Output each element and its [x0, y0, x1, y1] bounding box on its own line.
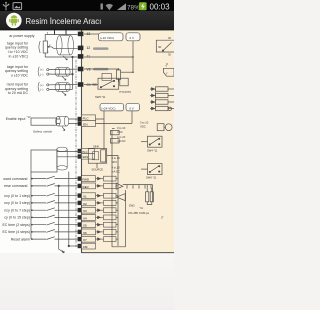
sink source selector block	[88, 144, 106, 171]
svg-text:quency setting: quency setting	[5, 69, 28, 73]
wire: 0V box down to EN row	[96, 111, 133, 124]
CM return wire	[69, 245, 82, 247]
terminal block 13	[78, 32, 84, 37]
terminal block X1	[78, 193, 82, 197]
junction on rail at group2 minus	[72, 73, 74, 75]
drive panel left border	[81, 30, 83, 253]
X1 switch row	[31, 193, 78, 196]
junction on rail at 11 wire	[72, 56, 74, 58]
shield drain arrow, group 2	[62, 76, 66, 80]
terminal block CM	[78, 244, 82, 248]
shield drain arrow, group 1	[63, 56, 67, 60]
svg-text:cy (0 to 15 step): cy (0 to 15 step)	[4, 216, 30, 220]
termination resistor Rb	[150, 192, 153, 202]
terminal box X3	[82, 207, 96, 213]
wire: group3 minus to 0V rail	[49, 88, 73, 90]
junction 0V and r-line	[132, 71, 134, 73]
terminal block EN	[78, 121, 82, 125]
vertical drain line left	[59, 186, 64, 253]
Y output connector	[164, 63, 175, 76]
svg-text:(+): (+)	[40, 68, 43, 72]
open collector output row 3	[150, 100, 174, 104]
terminal circle (-) group2	[47, 73, 49, 75]
terminal block 12	[78, 46, 84, 51]
opto FWD	[96, 176, 119, 181]
svg-text:ar power supply: ar power supply	[9, 34, 34, 38]
label: enable input *12	[6, 116, 31, 121]
terminal circle (+) group2	[47, 69, 49, 71]
schematic white sheet	[0, 30, 174, 253]
wire: command bundle upper	[57, 151, 82, 153]
svg-text:78%: 78%	[127, 4, 140, 11]
label: power supply note	[9, 34, 34, 38]
wire: +24V down to PLC row	[103, 111, 105, 119]
label: voltage input for frequency setting (0 to +10 VDC)	[5, 41, 29, 58]
RS-485 driver buffer	[116, 183, 152, 189]
svg-text:EC time (2 steps): EC time (2 steps)	[2, 223, 30, 227]
svg-text:Resim İnceleme Aracı: Resim İnceleme Aracı	[26, 17, 102, 26]
svg-text:4 to 20: 4 to 20	[112, 165, 121, 169]
svg-text:tage input for: tage input for	[7, 65, 29, 69]
jumper pins	[93, 152, 99, 160]
svg-text:tage input for: tage input for	[7, 41, 29, 45]
svg-text:ncy (0 to 7 step): ncy (0 to 7 step)	[4, 208, 30, 212]
shield drain arrow, group 3	[62, 92, 66, 96]
output common rail	[155, 89, 157, 109]
title bar	[0, 11, 174, 30]
terminal box X7	[82, 236, 96, 242]
label: acc dec time 4 steps	[2, 230, 30, 234]
svg-text:Y: Y	[166, 72, 168, 76]
junction at resistor top	[118, 68, 120, 70]
selector switch SW6	[141, 164, 162, 175]
terminal box X2	[82, 200, 96, 206]
svg-text:(+24 VDC): (+24 VDC)	[101, 106, 115, 110]
relay output box 30	[156, 36, 174, 57]
terminal block PLC	[78, 117, 82, 121]
label: reverse command	[4, 184, 27, 188]
status: battery charging icon	[139, 2, 147, 10]
terminal box SW1 jumper	[82, 154, 95, 159]
svg-text:erse command: erse command	[4, 184, 27, 188]
svg-text:quency setting: quency setting	[5, 46, 28, 50]
wire: jumper common to input rail	[107, 156, 118, 247]
wire: cut-off stub B at top	[65, 30, 67, 35]
status bar	[0, 0, 174, 11]
svg-text:X7: X7	[83, 238, 87, 242]
wire: 0V return rail	[72, 57, 74, 89]
resistor R-V2	[84, 69, 133, 82]
svg-text:mA DC: mA DC	[112, 169, 121, 173]
opto X1	[96, 193, 119, 198]
svg-text:X6: X6	[83, 231, 87, 235]
svg-text:(T: (T	[161, 215, 164, 219]
svg-text:*12: *12	[27, 116, 31, 119]
status: usb icon	[3, 2, 10, 10]
current sense box under V2	[102, 73, 111, 80]
terminal block C1	[78, 82, 84, 87]
RS-485 receiver buffer	[117, 194, 126, 201]
termination resistor Ra	[146, 192, 149, 202]
svg-text:SW4 *11: SW4 *11	[147, 148, 158, 152]
wire: pot wiper to terminal 12	[52, 47, 78, 49]
status: picture icon	[13, 3, 22, 10]
shielded twisted cable symbol, analog group 1	[57, 36, 74, 55]
opto X4	[96, 215, 119, 220]
svg-text:VDC: VDC	[140, 125, 146, 129]
svg-text:Reset alarm: Reset alarm	[11, 237, 30, 241]
svg-text:PLC: PLC	[82, 150, 87, 154]
terminal block X6	[78, 230, 82, 234]
wire: group3 plus to C1	[49, 84, 78, 86]
shield ground bus (dash-dot)	[75, 60, 77, 247]
shielded twisted cable, enable pair	[56, 116, 69, 126]
svg-text:0 V: 0 V	[130, 36, 135, 40]
shield drain arrow, enable pair	[62, 126, 65, 130]
svg-text:0 V: 0 V	[129, 106, 134, 110]
0V rounded box mid	[126, 103, 140, 111]
status: wifi icon	[106, 4, 113, 10]
X5 switch row	[31, 222, 78, 225]
svg-text:ncy (0 to 3 step): ncy (0 to 3 step)	[4, 201, 30, 205]
terminal box EN	[82, 121, 96, 127]
vertical return to CM	[68, 172, 70, 247]
label: multispeed 0 to 7 step	[4, 208, 30, 212]
RS-485 section divider	[152, 185, 154, 202]
wire: terminal 13 to +10VDC box	[84, 33, 99, 35]
junction CM	[68, 245, 70, 247]
svg-text:Safety switch: Safety switch	[33, 130, 52, 134]
opto X6	[96, 230, 119, 235]
bottom gray empty area	[0, 253, 174, 310]
svg-text:ncy (0 to 1 step): ncy (0 to 1 step)	[4, 194, 30, 198]
svg-text:REV: REV	[83, 185, 90, 189]
svg-text:(+10 VDC): (+10 VDC)	[100, 36, 114, 40]
X3 switch row	[31, 208, 78, 211]
wire: sink block down	[96, 163, 98, 168]
left common bus for switches	[30, 172, 32, 239]
label: acc dec time 2 steps	[2, 223, 30, 227]
0V rounded box top	[126, 33, 140, 41]
label: voltage input for frequency setting ±10 VDC	[5, 65, 29, 78]
svg-text:0 to 10: 0 to 10	[117, 126, 126, 130]
potentiometer RP1	[39, 41, 52, 53]
svg-text:SW2: SW2	[129, 204, 135, 208]
terminal circle (+) group3	[47, 84, 49, 86]
svg-text:4 to 20: 4 to 20	[117, 135, 126, 139]
terminal block jumper S	[78, 154, 82, 158]
terminal block FWD	[78, 176, 82, 180]
bracket group3	[38, 82, 39, 92]
label: reset alarm	[11, 237, 30, 241]
label: safety switch	[33, 130, 52, 134]
open collector output row 2	[150, 93, 174, 97]
chassis ground arrow	[62, 250, 64, 252]
+10VDC supply rounded box	[99, 33, 124, 41]
svg-text:ward command: ward command	[3, 177, 27, 181]
svg-text:to 20 mA DC: to 20 mA DC	[8, 91, 29, 95]
opto X2	[96, 201, 119, 206]
terminal box FWD	[82, 176, 96, 182]
status: small icon	[101, 4, 103, 10]
wire: 0V box down to 0V node	[84, 41, 133, 72]
wire: group2 plus to V2	[49, 68, 78, 70]
label: forward command	[3, 177, 27, 181]
wire: enable lower to EN	[57, 122, 78, 124]
svg-text:SOURCE: SOURCE	[92, 168, 104, 172]
opto X3	[96, 208, 119, 213]
svg-text:SW1: SW1	[82, 155, 88, 159]
label: multispeed 0 to 15 step	[4, 216, 30, 220]
analog section rail	[111, 130, 113, 247]
wire: pot pin1 to terminal 11	[45, 53, 77, 57]
open collector output row 1	[150, 87, 174, 91]
safety switch enclosure	[31, 118, 57, 125]
terminal box X6	[82, 229, 96, 235]
+24VDC supply rounded box	[100, 103, 124, 111]
signal direction arrow pill, terminal C1	[92, 83, 97, 85]
terminal block REV	[78, 184, 82, 188]
external command box	[31, 150, 57, 172]
terminal block X7	[78, 237, 82, 241]
boxed digital terminal labels	[82, 115, 96, 249]
terminal block X2	[78, 201, 82, 205]
terminal box X1	[82, 193, 96, 199]
wire: pot pin3 to terminal 13	[45, 35, 77, 41]
svg-text:VDC: VDC	[112, 160, 118, 164]
signal direction arrow pill, terminal V2	[93, 68, 109, 71]
drive panel bottom border	[82, 252, 175, 254]
bracket group2	[38, 67, 39, 77]
svg-text:PLC: PLC	[83, 117, 90, 121]
shielded twisted cable symbol, analog group 2	[55, 68, 70, 77]
digital input opto circuits	[96, 176, 119, 241]
svg-text:RS-485 COM po: RS-485 COM po	[129, 211, 150, 215]
reverse run switch row	[31, 184, 78, 187]
wire: PLC row inside panel	[96, 119, 105, 149]
svg-text:30: 30	[158, 45, 162, 49]
svg-text:SW5 *11: SW5 *11	[95, 95, 106, 99]
svg-text:quency setting: quency setting	[5, 87, 28, 91]
wire: cut-off stub A at top	[54, 30, 56, 35]
svg-text:VDC: VDC	[117, 130, 123, 134]
svg-text:mA DC: mA DC	[117, 139, 126, 143]
terminal circle (-) group3	[47, 88, 49, 90]
svg-text:X3: X3	[83, 209, 87, 213]
svg-text:l to +10 VDC: l to +10 VDC	[8, 50, 29, 54]
svg-text:EC time (4 steps): EC time (4 steps)	[2, 230, 30, 234]
label 0 to 10 VDC (FM)	[112, 156, 121, 164]
svg-text:0 to 10: 0 to 10	[140, 121, 149, 125]
terminal strip black blocks	[78, 32, 84, 249]
shielded twisted cable symbol, analog group 3	[55, 83, 70, 92]
svg-text:EN: EN	[83, 122, 87, 126]
page background	[0, 0, 174, 310]
terminal box PLC jumper	[82, 148, 95, 153]
terminal box CM	[82, 243, 96, 249]
svg-text:(+): (+)	[40, 83, 43, 87]
svg-text:FWD: FWD	[82, 178, 90, 182]
jumper housing box	[88, 149, 106, 164]
junction: 0V node	[132, 56, 134, 58]
terminal block V2	[78, 67, 84, 72]
PTC/NTC selector switch SW5	[84, 78, 128, 89]
wire: group2 minus to 0V rail	[49, 73, 73, 75]
opto X7	[96, 237, 119, 242]
analog meter symbol	[157, 124, 172, 131]
svg-text:SINK: SINK	[93, 144, 99, 148]
signal direction arrow pill, terminal 12	[93, 47, 109, 50]
terminal box REV	[82, 183, 96, 189]
AM output circuit	[111, 129, 120, 135]
svg-text:X2: X2	[83, 202, 87, 206]
terminal box X5	[82, 222, 96, 228]
status: signal triangle	[117, 3, 126, 10]
svg-text:(−): (−)	[40, 88, 43, 92]
terminal block X3	[78, 208, 82, 212]
terminal box PLC	[82, 115, 96, 121]
title bar: app icon circle with android robot	[6, 13, 22, 29]
label: current input for frequency setting 4 to 20 mA DC	[5, 82, 29, 95]
junction drain-REV	[58, 185, 60, 187]
drive beige panel	[82, 30, 175, 253]
svg-text:SW6 *11: SW6 *11	[146, 176, 157, 180]
open collector output row 4	[150, 106, 174, 110]
wires to termination	[147, 185, 152, 205]
svg-text:in ±10 VDC): in ±10 VDC)	[9, 55, 28, 59]
label: multispeed 0 to 3 step	[4, 201, 30, 205]
X6 switch row	[31, 230, 78, 233]
wire: command bundle lower	[57, 156, 82, 158]
svg-text:Enable input: Enable input	[6, 117, 26, 121]
label 4 to 20 mA DC (AM)	[117, 126, 126, 143]
svg-text:u ±10 VDC: u ±10 VDC	[11, 74, 29, 78]
FM output circuit	[111, 139, 120, 143]
terminal block 11	[78, 54, 84, 59]
svg-text:X4: X4	[83, 216, 87, 220]
svg-text:CM: CM	[83, 245, 88, 249]
terminal block X4	[78, 215, 82, 219]
svg-text:0 to 10: 0 to 10	[112, 156, 121, 160]
opto X5	[96, 222, 119, 227]
svg-text:X5: X5	[83, 224, 87, 228]
svg-text:X1: X1	[83, 195, 87, 199]
output rail right	[112, 190, 126, 247]
analog terminal name labels	[87, 32, 91, 87]
label 0 to 10 VDC (meter)	[140, 121, 149, 129]
selector switch SW4	[141, 136, 162, 147]
X7 switch row	[31, 237, 78, 240]
svg-text:00:03: 00:03	[150, 3, 171, 12]
X4 switch row	[31, 215, 78, 218]
forward run switch row	[31, 176, 78, 179]
svg-text:rrent input for: rrent input for	[7, 82, 29, 86]
label 4 to 20 mA DC (FM)	[112, 165, 121, 173]
twisted pair cable, command bundle	[57, 147, 67, 170]
terminal block jumper P	[78, 149, 82, 153]
terminal box X4	[82, 215, 96, 221]
jumper plug	[101, 150, 106, 162]
opto REV	[96, 184, 119, 189]
label: multispeed 0 to 1 step	[4, 194, 30, 198]
svg-text:12: 12	[87, 46, 91, 50]
svg-text:(−): (−)	[40, 72, 43, 76]
wire: enable upper to PLC	[57, 118, 78, 120]
X2 switch row	[31, 201, 78, 204]
terminal block X5	[78, 222, 82, 226]
svg-text:PTC/NTC: PTC/NTC	[120, 90, 132, 94]
